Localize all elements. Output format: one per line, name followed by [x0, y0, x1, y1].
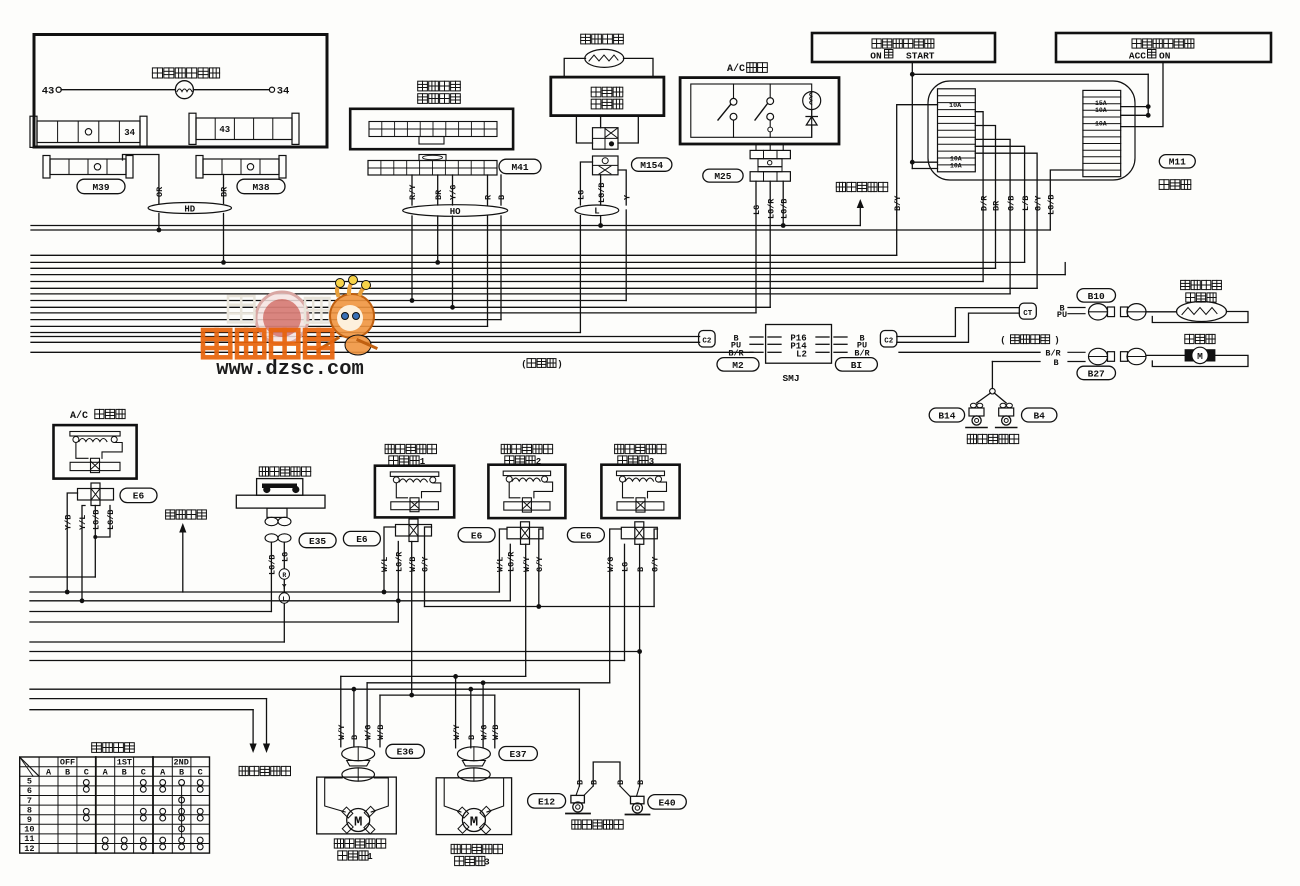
junction B motor2	[468, 687, 473, 692]
arrow to fan switch	[859, 203, 861, 226]
svg-text:5: 5	[27, 777, 32, 787]
svg-text:(: (	[521, 360, 526, 370]
svg-text:LG/B: LG/B	[779, 199, 789, 219]
B pigtail dash	[1068, 361, 1085, 363]
riser from ACC link	[1147, 74, 1149, 115]
svg-text:B: B	[65, 767, 70, 777]
bus line 3 (B/Y)	[31, 254, 897, 256]
connector pair B10	[1089, 304, 1108, 320]
svg-text:OFF: OFF	[60, 758, 75, 768]
svg-text:6: 6	[27, 786, 32, 796]
wire G/Y from fuse	[975, 153, 1037, 288]
wire LG/R from M25	[769, 181, 771, 307]
svg-text:E12: E12	[538, 796, 555, 807]
A/C switch box	[680, 78, 839, 144]
svg-text:E36: E36	[397, 747, 414, 758]
wire 10A fuse to riser	[1121, 114, 1149, 116]
svg-text:10A: 10A	[1095, 107, 1107, 114]
switch SW2 contacts	[767, 98, 774, 105]
wire B from M41 to HO	[500, 175, 502, 205]
bus line 6 (stub end)	[31, 274, 1065, 276]
watermark char 片	[305, 298, 330, 323]
svg-text:R/Y: R/Y	[408, 184, 418, 200]
wire R/Y from M41 to HO	[411, 175, 413, 205]
radiator fan relay K4	[601, 465, 679, 518]
label 散热器风扇 (m1)	[334, 839, 385, 848]
svg-text:LG/B: LG/B	[92, 510, 102, 530]
lamp in A/C switch	[803, 92, 821, 110]
bottom bus line K (W/G net)	[367, 682, 610, 684]
SMJ right pin dashes	[816, 336, 829, 338]
label 散热器风扇 (relay2)	[501, 444, 552, 453]
label 至左前照灯	[239, 766, 290, 775]
svg-text:A/C: A/C	[70, 410, 88, 422]
wire LG/B-2 from A/C relay	[95, 506, 110, 538]
label 灯光开关	[92, 743, 135, 753]
svg-text:10: 10	[24, 825, 34, 835]
wire BR from M41 to HO	[437, 175, 439, 205]
svg-text:B: B	[1053, 358, 1058, 368]
wire W/G relay3	[610, 529, 622, 683]
junction on ignition wire bottom	[910, 160, 915, 165]
oval E6 (relay1)	[343, 531, 380, 546]
label 热敏电阻	[581, 34, 624, 44]
label 散热器风扇 (relay1)	[385, 444, 436, 453]
harness ellipse HO	[403, 205, 508, 217]
wire ground riser	[991, 362, 993, 389]
wire headlamp arrow right	[266, 699, 268, 745]
wire lamp right lead to pin 34	[193, 89, 269, 91]
wire B motor2	[470, 689, 472, 748]
label 放大器	[591, 99, 623, 109]
svg-text:C: C	[198, 767, 203, 777]
bus line 14 (R M41)	[31, 325, 488, 327]
label 发动机检查灯	[152, 68, 219, 78]
svg-text:E35: E35	[309, 536, 326, 547]
pressure switch connector upper	[265, 517, 278, 525]
svg-text:G/B: G/B	[1006, 196, 1016, 211]
svg-text:L/B: L/B	[1021, 196, 1031, 211]
wire LG/B from pressure switch	[270, 542, 272, 611]
arrow to compressor	[182, 527, 184, 592]
svg-text:L: L	[594, 207, 599, 217]
junction B motor1	[352, 687, 357, 692]
connector grid M39	[43, 156, 50, 179]
watermark 维库一下 text	[203, 330, 332, 357]
bottom bus line H	[30, 651, 640, 653]
junction Y/L line C	[80, 598, 85, 603]
A/C relay K1	[54, 425, 137, 479]
junction G/Y r2	[536, 604, 541, 609]
svg-text:R: R	[282, 572, 286, 579]
svg-text:A: A	[160, 767, 166, 777]
lamp L1 engine check light	[175, 81, 193, 99]
wire LG from M25	[755, 181, 757, 313]
label 继电器1	[389, 456, 419, 465]
svg-text:LG: LG	[752, 205, 762, 215]
svg-text:B: B	[350, 735, 360, 740]
connector grid in box (pin 34 row)	[30, 116, 37, 147]
wire B/R to fuel pump	[899, 351, 1040, 353]
junction HD-right on line4	[221, 260, 226, 265]
wire Y/G from M41 to HO	[452, 175, 454, 205]
wire LG/B from fuse	[1050, 170, 1083, 230]
svg-text:7: 7	[27, 796, 32, 806]
svg-text:10A: 10A	[950, 162, 962, 169]
SMJ left pin dashes	[750, 336, 763, 338]
svg-text:(: (	[1000, 336, 1005, 346]
wire HD left drop to bus line 2	[158, 214, 160, 231]
svg-text:LG: LG	[621, 562, 631, 572]
oval B27	[1077, 366, 1116, 380]
label 车身搭铁线 (lower)	[572, 820, 623, 829]
svg-text:Y/L: Y/L	[78, 515, 88, 530]
oval E12	[528, 794, 566, 809]
bus line 15 (LG L)	[31, 332, 580, 334]
wire G/Y relay3	[654, 529, 657, 607]
junction 15A riser	[1146, 104, 1151, 109]
ground jumper bridge	[593, 762, 620, 786]
svg-text:R: R	[484, 194, 494, 200]
wire sensor to connector	[1146, 311, 1177, 313]
wire W/Y relay2	[525, 544, 527, 676]
bus line 16 (B to C2)	[31, 336, 700, 338]
svg-text:W/L: W/L	[496, 557, 506, 572]
svg-text:ON: ON	[870, 51, 882, 62]
connector C2 right	[880, 331, 897, 348]
ground pin E12	[576, 786, 579, 795]
svg-text:43: 43	[219, 125, 230, 135]
junction on ignition wire top	[910, 72, 915, 77]
svg-text:PU: PU	[1057, 310, 1067, 320]
circled L on LG wire	[279, 593, 289, 603]
oval E35	[299, 533, 336, 548]
oval E36	[386, 744, 425, 758]
bus line 5 (BR fuse)	[31, 267, 996, 269]
wire W/G motor2	[482, 683, 484, 748]
svg-text:www.dzsc.com: www.dzsc.com	[216, 358, 364, 381]
fuel pump M1	[1185, 349, 1216, 361]
bus line 9 (G/B)	[31, 293, 1010, 295]
fuse ladder left	[938, 89, 976, 172]
svg-text:8: 8	[27, 805, 32, 815]
bottom bus line L (ground net)	[30, 688, 579, 690]
svg-text:B: B	[497, 195, 507, 200]
wire D/R from fuse	[975, 112, 983, 282]
fuse ladder right	[1083, 90, 1121, 176]
svg-text:BR: BR	[220, 186, 230, 197]
connector C2 left	[699, 331, 716, 348]
ground branch node	[990, 388, 996, 394]
wire sensor return loop	[1152, 312, 1248, 323]
wire amp out mid	[600, 116, 602, 128]
svg-text:L2: L2	[796, 350, 807, 360]
junction W/L r1	[382, 590, 387, 595]
A/C switch inner outline	[691, 84, 812, 137]
bottom bus line N (headlamp L)	[30, 709, 253, 711]
svg-text:D/R: D/R	[979, 195, 989, 211]
radiator fan relay K2	[375, 466, 454, 518]
arrowhead right	[263, 744, 270, 754]
svg-text:HD: HD	[184, 204, 195, 214]
svg-text:W/Y: W/Y	[522, 556, 532, 572]
junction W/B r1	[409, 693, 414, 698]
svg-text:B: B	[616, 780, 626, 785]
svg-text:B/Y: B/Y	[893, 195, 903, 211]
oval B14	[929, 408, 964, 422]
svg-text:B: B	[122, 767, 127, 777]
wire LG below L to line15 end	[579, 216, 581, 333]
ignition box ON/START 点火开关置于ON或START	[812, 33, 995, 62]
svg-text:W/B: W/B	[491, 725, 501, 740]
svg-text:M: M	[470, 815, 478, 831]
wire W/B relay1	[411, 542, 413, 696]
label 散热器风扇 (relay3)	[615, 444, 666, 453]
thermo control amplifier box 热控制放大器	[551, 77, 664, 116]
oval E37	[499, 747, 538, 761]
label 至压缩机	[166, 510, 207, 519]
svg-text:9: 9	[27, 815, 32, 825]
ground branch left	[977, 393, 991, 403]
svg-text:B10: B10	[1088, 291, 1105, 302]
ground pin B4-side	[1000, 403, 1006, 407]
label 车身搭铁线 (upper)	[967, 434, 1018, 443]
wire G/Y relay2	[539, 529, 543, 607]
relay3 connector	[621, 527, 657, 539]
switch SW1 contacts	[730, 98, 737, 105]
bottom bus line E (LG/B psw)	[30, 611, 271, 613]
bottom bus line B (compressor/W-L)	[30, 591, 499, 593]
ground pin E40	[620, 786, 630, 796]
bottom bus line W/B net	[380, 694, 495, 696]
svg-text:M25: M25	[714, 171, 731, 182]
table contact circles	[83, 780, 89, 786]
wire ground drop E12	[578, 689, 580, 786]
bottom bus line F	[30, 621, 398, 623]
svg-text:W/G: W/G	[363, 725, 373, 740]
label 继电器1 (m1)	[338, 851, 368, 860]
svg-text:C: C	[84, 767, 89, 777]
oval E6 (A/C relay)	[120, 488, 157, 503]
bus line 18 (B/R)	[31, 351, 753, 353]
svg-text:): )	[557, 360, 562, 370]
oval BI	[835, 358, 877, 372]
connector grid inside display box	[369, 122, 497, 137]
wire W/Y motor2	[455, 676, 457, 747]
wire LG relay3	[624, 544, 626, 660]
svg-text:M: M	[354, 815, 362, 831]
junction HD-left on line2	[157, 228, 162, 233]
svg-text:G/Y: G/Y	[1033, 195, 1043, 211]
svg-text:B: B	[467, 735, 477, 740]
oval B10	[1077, 289, 1116, 303]
connector grid in box (pin 43 row)	[189, 113, 196, 144]
bottom bus line M (headlamp R)	[30, 698, 267, 700]
wire LG from M154	[580, 162, 592, 205]
svg-text:): )	[1054, 336, 1059, 346]
svg-text:1ST: 1ST	[117, 758, 132, 768]
bus line 4 (BR net)	[31, 261, 1025, 263]
bottom bus line J (W/Y net)	[341, 675, 526, 677]
oval B4	[1022, 408, 1057, 422]
bus line 10 (R/Y,Y)	[31, 300, 626, 302]
wire from ignition ON/START box down	[911, 62, 913, 169]
svg-text:M154: M154	[640, 160, 663, 171]
wire BR from fuse	[975, 126, 995, 269]
svg-text:W/Y: W/Y	[452, 724, 462, 740]
bottom bus line I	[30, 660, 625, 662]
fan motor M2 block	[342, 747, 375, 761]
watermark char 找	[228, 296, 254, 322]
svg-text:LG/R: LG/R	[395, 551, 405, 572]
wire fuse feed row2	[912, 168, 937, 170]
pressure switch connector lower (E35)	[265, 534, 278, 542]
svg-text:E6: E6	[133, 491, 145, 502]
svg-text:LG: LG	[577, 190, 587, 200]
svg-text:Y: Y	[282, 584, 287, 592]
harness ellipse HD	[148, 203, 231, 214]
wire OR from M39 to HD	[123, 155, 159, 204]
stub hook at line 6 end	[1064, 263, 1066, 275]
wire B motor1	[353, 689, 355, 747]
wire LG/R relay1	[397, 542, 399, 623]
bus line 7 (D/R)	[31, 281, 983, 283]
wire LG/R relay2	[509, 544, 511, 601]
B/R pigtail dash	[1068, 351, 1085, 353]
svg-text:34: 34	[277, 86, 290, 98]
label 点火开关置于(2)	[1132, 39, 1194, 48]
svg-text:11: 11	[24, 834, 34, 844]
ground pin B14-side	[970, 403, 976, 407]
junction Y/B line B	[65, 590, 70, 595]
svg-text:M2: M2	[732, 360, 744, 371]
oval E6 (relay2)	[458, 528, 495, 543]
wire Y/G below HO to line11	[452, 216, 454, 307]
wire W/G motor1	[366, 683, 368, 747]
svg-text:BR: BR	[434, 189, 444, 200]
svg-text:C: C	[141, 767, 146, 777]
display control unit box 遮面显示控制单元	[350, 109, 513, 149]
svg-text:W/B: W/B	[376, 725, 386, 740]
wire headlamp arrow left	[252, 710, 254, 745]
wire LG/B from M154	[600, 175, 602, 205]
svg-text:34: 34	[124, 128, 135, 138]
wire Y/L from A/C relay	[82, 506, 85, 601]
svg-text:ON: ON	[1159, 51, 1171, 62]
label 排气温度	[1181, 280, 1222, 289]
svg-text:E6: E6	[356, 534, 368, 545]
wire fuse feed row1	[912, 161, 937, 163]
wire BR below HO to line4	[437, 216, 439, 262]
svg-text:G/Y: G/Y	[535, 556, 545, 572]
svg-text:M41: M41	[511, 162, 528, 173]
wire L/B from fuse	[975, 146, 1024, 262]
svg-text:LG/B: LG/B	[1047, 195, 1057, 215]
bus line 17 (PU to C2)	[31, 341, 700, 343]
relay1 connector	[396, 525, 432, 537]
wire SW2 lower drop	[769, 120, 771, 127]
exhaust temperature sensor RT2	[1177, 302, 1227, 322]
svg-text:W/L: W/L	[380, 557, 390, 572]
svg-text:B4: B4	[1033, 410, 1045, 421]
wire lamp left lead to pin 43	[61, 89, 175, 91]
junction B r3 on line H	[637, 649, 642, 654]
wire LG/B below L to line1	[600, 216, 602, 226]
label 散热器风扇 (m2)	[451, 844, 502, 853]
wire W/B motor2	[494, 695, 496, 748]
label 至风扇开关	[836, 182, 887, 191]
wire B relay3 to E40	[639, 544, 641, 651]
oval M11	[1159, 155, 1195, 168]
wire Y from M154	[618, 170, 626, 205]
wire B below HO to line13 end	[500, 216, 502, 320]
svg-text:15A: 15A	[1095, 100, 1107, 107]
oval M41	[499, 159, 541, 174]
svg-text:START: START	[906, 51, 935, 62]
bottom bus line G (LG psw)	[30, 641, 284, 643]
circled R on LG wire	[279, 569, 289, 579]
fan motor M3 block	[457, 747, 490, 761]
svg-text:12: 12	[24, 844, 34, 854]
svg-text:E6: E6	[580, 530, 592, 541]
label 熔断器	[1159, 180, 1191, 190]
svg-text:Y/B: Y/B	[63, 515, 73, 530]
wire C2 right pin1 to CT riser	[897, 308, 1019, 337]
svg-text:LG: LG	[281, 552, 291, 562]
wire R below HO to line14 end	[487, 216, 489, 326]
bus line 13 (B M41)	[31, 319, 501, 321]
oval E6 (relay3)	[567, 528, 604, 543]
light switch table grid 灯光开关	[20, 757, 210, 853]
label 双压力开关	[259, 467, 310, 476]
label 点火开关置于(1)	[872, 39, 934, 48]
svg-text:C2: C2	[884, 337, 894, 345]
svg-text:B: B	[576, 780, 586, 785]
watermark mascot	[330, 294, 374, 338]
wire SW1 lower drop	[733, 120, 735, 137]
svg-text:LG/B: LG/B	[106, 510, 116, 530]
connector pair B27	[1089, 348, 1108, 364]
svg-text:G/Y: G/Y	[421, 556, 431, 572]
svg-text:10A: 10A	[1095, 121, 1107, 128]
svg-text:W/G: W/G	[479, 725, 489, 740]
oval E40	[648, 795, 687, 810]
wire B to ground riser	[992, 361, 1040, 363]
svg-text:A: A	[103, 767, 109, 777]
wire HD right drop to bus line 4	[223, 214, 225, 263]
wire B/Y from fuse	[897, 105, 938, 256]
wire Y/B from A/C relay	[67, 493, 77, 592]
wire R from M41 to HO	[487, 175, 489, 205]
svg-text:L: L	[282, 596, 286, 603]
wire W/B motor1	[379, 695, 381, 747]
svg-text:E40: E40	[658, 797, 675, 808]
wire LG/B from M25	[782, 181, 784, 225]
junction LG/B join	[93, 535, 97, 539]
svg-text:LG/R: LG/R	[766, 198, 776, 219]
wire amp out right	[618, 116, 638, 143]
svg-text:W/Y: W/Y	[337, 724, 347, 740]
wire R/Y below HO to line10	[411, 216, 413, 301]
svg-text:E6: E6	[471, 530, 483, 541]
svg-text:Y/G: Y/G	[449, 185, 459, 200]
junction LG/R r1	[396, 598, 401, 603]
SMJ box	[766, 325, 832, 364]
svg-text:LG/B: LG/B	[597, 183, 607, 203]
harness ellipse L	[575, 205, 619, 216]
svg-text:W/G: W/G	[606, 557, 616, 572]
wire W/L relay2	[499, 529, 507, 592]
